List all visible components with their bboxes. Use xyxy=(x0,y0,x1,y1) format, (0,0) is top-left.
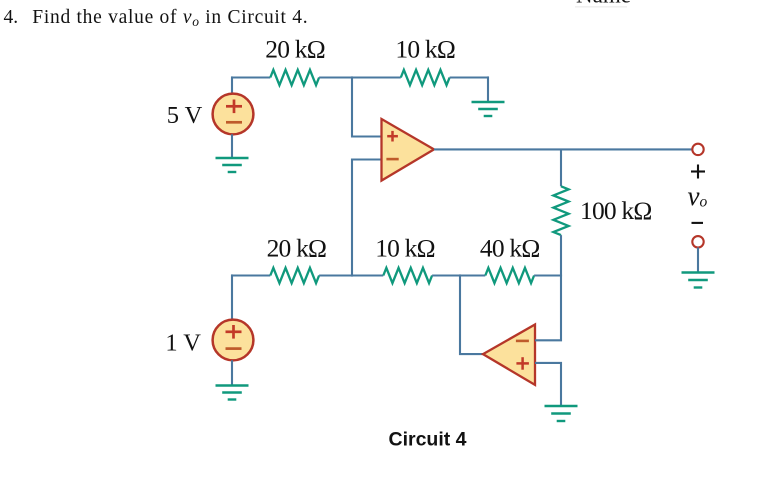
minus sign in V1 xyxy=(226,121,242,124)
svg-text:4.: 4. xyxy=(4,7,19,28)
svg-text:10 kΩ: 10 kΩ xyxy=(395,35,455,64)
wire: drop to ground (top right) xyxy=(487,76,489,102)
ground (top right) xyxy=(472,102,505,116)
wire: U2 + input down to ground xyxy=(535,363,561,406)
op-amp U2 (points left) xyxy=(483,325,535,385)
resistor R=10k (top) xyxy=(401,70,450,85)
svg-text:20 kΩ: 20 kΩ xyxy=(265,35,325,64)
op-amp U1 xyxy=(382,119,435,181)
source V1 5V circle xyxy=(213,94,254,135)
plus sign in V2 xyxy=(226,325,242,339)
svg-text:10 kΩ: 10 kΩ xyxy=(375,234,435,263)
ground (below 1V) xyxy=(216,386,249,400)
wire: middle rail seg 3 xyxy=(432,274,485,276)
wire: middle rail seg 4 xyxy=(534,274,561,276)
svg-text:1 V: 1 V xyxy=(165,330,201,357)
wire: middle rail drop to U2 output xyxy=(460,274,483,354)
wire: drop from output rail to 100k xyxy=(560,149,562,186)
plus sign U1 xyxy=(387,131,398,142)
vo plus mark xyxy=(691,165,705,179)
wire: middle rail seg 1 xyxy=(232,274,270,276)
terminal node (top, vo +) xyxy=(692,144,703,155)
svg-text:20 kΩ: 20 kΩ xyxy=(267,234,327,263)
source V2 1V circle xyxy=(213,320,254,361)
svg-text:Find the value of vo in Circui: Find the value of vo in Circuit 4. xyxy=(32,7,308,29)
ground (below vo terminal) xyxy=(682,273,715,288)
resistor R=20k (top) xyxy=(270,70,319,85)
terminal node (bottom, vo -) xyxy=(692,236,703,247)
wire: U1 - input down to middle rail xyxy=(352,160,382,277)
minus sign U1 xyxy=(386,158,398,161)
plus sign in V1 xyxy=(226,100,242,114)
svg-text:vo: vo xyxy=(688,181,708,211)
resistor R=100k (vertical) xyxy=(553,186,568,235)
wire: 5V source top stem xyxy=(231,76,233,94)
wire: U2 - input up to middle rail xyxy=(535,274,561,340)
minus sign in V2 xyxy=(226,347,242,350)
ground (below U2) xyxy=(545,406,578,421)
wire: 5V source bottom stem xyxy=(231,134,233,158)
wire: 100k bottom to middle rail xyxy=(560,235,562,277)
wire: top rail right segment xyxy=(450,76,488,78)
minus sign U2 xyxy=(516,340,529,343)
wire: bottom terminal to ground xyxy=(697,248,699,273)
wire: 1V source top stem xyxy=(231,274,233,320)
plus sign U2 xyxy=(516,357,529,370)
resistor R=10k (middle) xyxy=(383,268,432,283)
wire: top rail left segment xyxy=(232,76,270,78)
wire: middle rail seg 2 xyxy=(319,274,383,276)
resistor R=40k (middle) xyxy=(485,268,534,283)
title text xyxy=(4,7,309,29)
Name header (clipped at top) xyxy=(575,0,631,8)
wire: top rail middle segment xyxy=(319,76,401,78)
svg-text:5 V: 5 V xyxy=(167,102,203,129)
wire: 1V source bottom stem xyxy=(231,360,233,385)
vo minus mark xyxy=(692,222,704,224)
svg-text:40 kΩ: 40 kΩ xyxy=(480,234,540,263)
wire: U1 output rail xyxy=(434,148,692,150)
resistor R=20k (middle) xyxy=(270,268,319,283)
svg-text:100 kΩ: 100 kΩ xyxy=(580,196,652,225)
svg-text:Circuit 4: Circuit 4 xyxy=(388,429,466,451)
ground (below 5V) xyxy=(216,158,249,172)
wire: junction drop to op-amp U1 + input xyxy=(352,76,382,136)
